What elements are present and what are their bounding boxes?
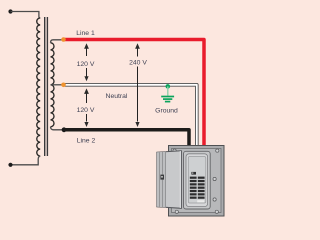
door hinge folds [157, 152, 166, 208]
main breaker [191, 172, 196, 175]
wire (primary top lead) [11, 12, 41, 19]
svg-text:240 V: 240 V [129, 59, 147, 66]
node (Neutral tap, orange) [61, 83, 66, 88]
svg-text:Line 2: Line 2 [77, 138, 96, 145]
dimension arrow 240 V [135, 43, 140, 127]
ground symbol [161, 84, 174, 102]
svg-text:Line 1: Line 1 [76, 30, 95, 37]
panel inset face [172, 149, 222, 213]
dimension arrow 120 V upper [84, 43, 89, 81]
svg-text:120 V: 120 V [77, 61, 95, 68]
transformer secondary winding [51, 43, 55, 127]
panel door frame [184, 151, 211, 209]
svg-text:Ground: Ground [155, 107, 178, 114]
breaker bars left column [190, 177, 197, 199]
wire (secondary center tap lead) [51, 84, 64, 86]
node B (primary bottom terminal dot) [8, 163, 12, 167]
breaker label strip [197, 200, 204, 202]
wire Line 2 (black hot conductor) [64, 130, 189, 147]
transformer primary winding [37, 18, 40, 156]
breaker bars right column [198, 177, 205, 199]
door latch [160, 175, 164, 180]
wire Neutral (white conductor, outlined) [64, 85, 197, 147]
wire (secondary bottom lead) [51, 127, 65, 130]
node (Line 1 tap, orange) [61, 37, 66, 42]
transformer core [44, 17, 46, 156]
wire (primary bottom lead) [11, 156, 41, 165]
panel interior face [186, 154, 208, 207]
svg-text:120 V: 120 V [77, 107, 95, 114]
wire Line 1 (red hot conductor) [64, 40, 205, 147]
panel door (open) [157, 151, 182, 209]
svg-text:Neutral: Neutral [106, 93, 128, 100]
wire (secondary top lead) [51, 40, 64, 43]
breaker panel (load center) [157, 146, 224, 217]
panel screws [173, 149, 219, 213]
panel outer box [169, 146, 225, 217]
breaker cover [188, 157, 206, 204]
dimension arrow 120 V lower [84, 88, 89, 127]
node A (primary top terminal dot) [8, 9, 12, 13]
node (Line 2 tap, black) [62, 127, 67, 132]
door edge highlight [179, 151, 181, 208]
